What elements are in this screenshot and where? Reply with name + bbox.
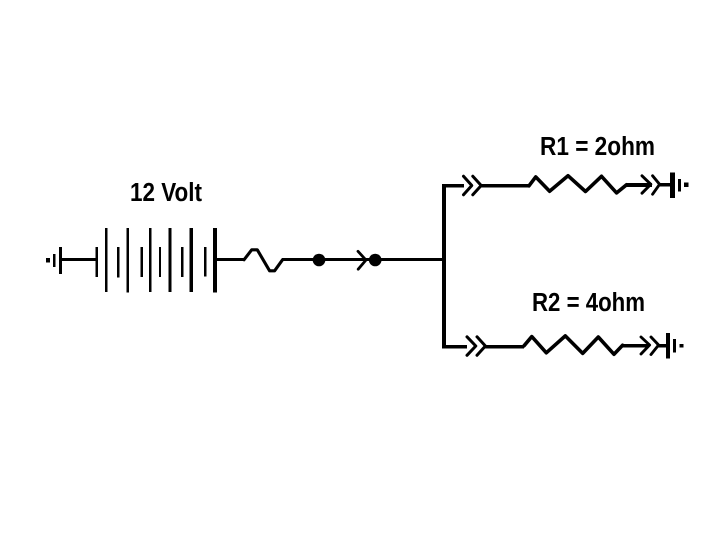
svg-text:R1 = 2ohm: R1 = 2ohm: [540, 133, 655, 161]
svg-text:R2 = 4ohm: R2 = 4ohm: [532, 289, 645, 317]
svg-text:12 Volt: 12 Volt: [130, 179, 202, 207]
